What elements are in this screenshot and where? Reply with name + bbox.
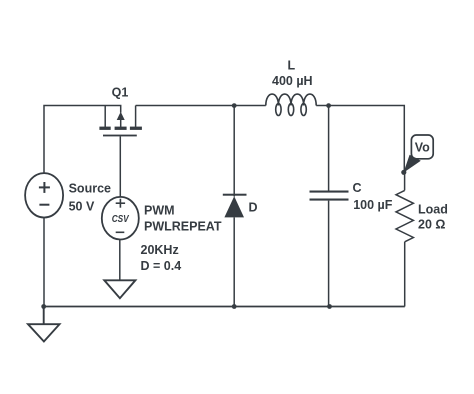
wire bottom rail xyxy=(44,306,405,308)
wire inductor to top-right corner xyxy=(316,106,404,173)
arrowhead xyxy=(117,112,125,120)
svg-text:Load: Load xyxy=(418,202,448,216)
svg-text:PWLREPEAT: PWLREPEAT xyxy=(144,220,222,234)
transistor Q1 xyxy=(99,106,141,137)
drain drop xyxy=(104,106,106,128)
svg-text:50 V: 50 V xyxy=(69,199,95,213)
junction dot at diode bottom xyxy=(232,304,237,309)
bulk arrow line xyxy=(120,119,122,128)
gate plate xyxy=(103,135,137,137)
probe dot Vo xyxy=(401,170,406,175)
voltage source V1 (Source) xyxy=(25,173,63,217)
svg-text:C: C xyxy=(353,181,362,195)
svg-text:Q1: Q1 xyxy=(112,86,129,100)
junction dot at capacitor top xyxy=(326,103,331,108)
svg-text:CSV: CSV xyxy=(112,213,130,225)
wire gate to PWM source xyxy=(119,136,121,197)
junction dot at diode top xyxy=(232,103,237,108)
inductor L xyxy=(266,94,316,115)
capacitor C xyxy=(310,106,349,307)
wire source bottom to bottom rail xyxy=(43,218,45,307)
svg-text:400 µH: 400 µH xyxy=(272,74,313,88)
svg-text:20KHz: 20KHz xyxy=(141,243,179,257)
wire top rail mosfet to top-right corner xyxy=(136,105,266,107)
wire top rail left (source to mosfet bulk corner) xyxy=(44,106,121,174)
svg-text:20 Ω: 20 Ω xyxy=(418,218,445,232)
PWM source U1 (CSV) xyxy=(102,197,139,240)
svg-text:100 µF: 100 µF xyxy=(353,198,393,212)
source drop xyxy=(135,106,137,128)
probe box Vo xyxy=(411,135,433,159)
resistor Load xyxy=(396,175,413,307)
ground (left) xyxy=(28,307,60,342)
diode D xyxy=(223,106,247,307)
svg-text:PWM: PWM xyxy=(144,203,175,217)
probe flag Vo xyxy=(403,155,420,173)
svg-text:Vo: Vo xyxy=(415,141,430,155)
ground (below PWM) xyxy=(104,280,135,298)
junction dot at capacitor bottom xyxy=(327,304,332,309)
channel bars xyxy=(99,127,110,130)
junction dot bottom-left xyxy=(41,304,46,309)
svg-text:D: D xyxy=(249,201,258,215)
svg-text:Source: Source xyxy=(69,181,111,195)
svg-text:L: L xyxy=(288,58,296,72)
svg-text:D = 0.4: D = 0.4 xyxy=(141,259,182,273)
wire PWM source to ground xyxy=(119,240,121,280)
